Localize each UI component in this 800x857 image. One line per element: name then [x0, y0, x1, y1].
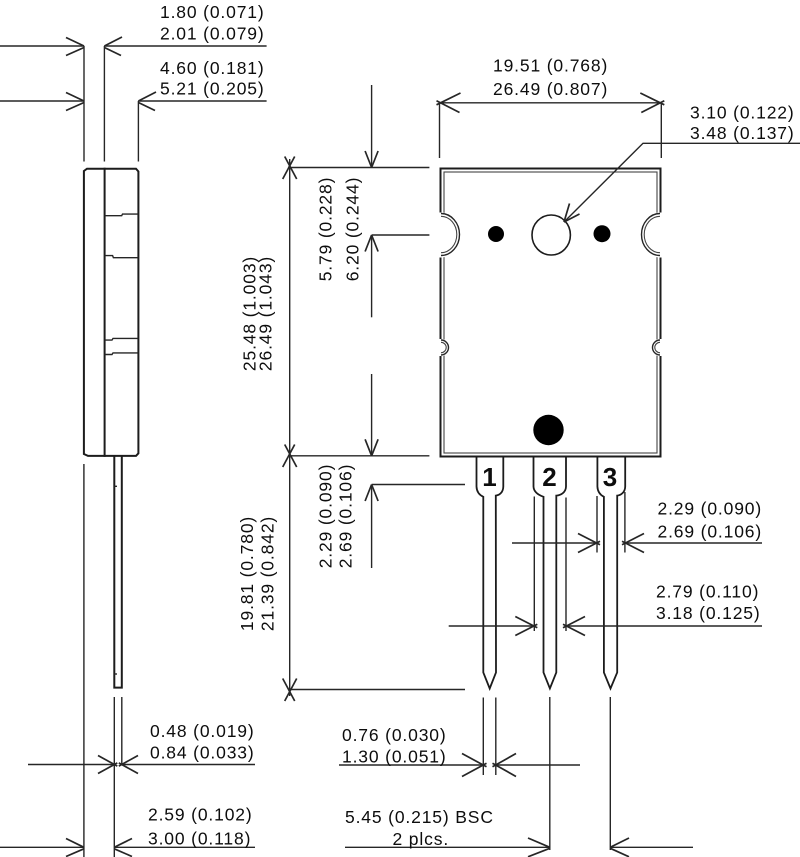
- svg-text:19.51 (0.768): 19.51 (0.768): [493, 56, 608, 76]
- svg-text:2.79 (0.110): 2.79 (0.110): [656, 582, 759, 602]
- svg-text:0.84 (0.033): 0.84 (0.033): [150, 743, 255, 763]
- svg-text:2: 2: [542, 462, 556, 492]
- svg-text:26.49 (0.807): 26.49 (0.807): [493, 79, 608, 99]
- svg-text:0.76 (0.030): 0.76 (0.030): [342, 725, 447, 745]
- side view internal line 4: [105, 353, 139, 355]
- dim 2.79/3.18 pin2 wide: [449, 497, 762, 636]
- svg-text:0.48 (0.019): 0.48 (0.019): [150, 721, 255, 741]
- side view body outline: [84, 169, 138, 688]
- svg-text:2 plcs.: 2 plcs.: [393, 829, 450, 849]
- extension lines bottom-left: [83, 464, 85, 857]
- svg-text:1.30 (0.051): 1.30 (0.051): [342, 747, 447, 767]
- svg-text:4.60 (0.181): 4.60 (0.181): [160, 58, 265, 78]
- pin tip ext line: [288, 689, 465, 691]
- pkg bottom ext line: [288, 455, 429, 457]
- svg-text:3.10 (0.122): 3.10 (0.122): [690, 103, 795, 123]
- pin 2 front: [534, 458, 567, 689]
- svg-text:1: 1: [482, 462, 496, 492]
- pin shoulder ref: [372, 484, 465, 486]
- svg-text:1.80 (0.071): 1.80 (0.071): [160, 2, 265, 22]
- pin 3 front: [597, 458, 625, 689]
- dim 19.51/26.49 pkg width: [437, 56, 665, 158]
- front view package: [438, 169, 663, 457]
- svg-text:2.59 (0.102): 2.59 (0.102): [148, 805, 253, 825]
- dim 5.45 BSC pin pitch: [345, 697, 693, 857]
- svg-text:5.21 (0.205): 5.21 (0.205): [160, 79, 265, 99]
- right small dot: [594, 225, 611, 242]
- svg-text:2.29 (0.090): 2.29 (0.090): [658, 499, 763, 519]
- side view internal line 2: [105, 256, 139, 258]
- right small notch: [651, 339, 663, 356]
- svg-text:2.69 (0.106): 2.69 (0.106): [658, 522, 763, 542]
- extension lines top-left: [83, 46, 85, 162]
- svg-text:26.49 (1.043): 26.49 (1.043): [256, 256, 276, 371]
- svg-text:5.79 (0.228): 5.79 (0.228): [316, 177, 336, 282]
- dim 0.48/0.84: [28, 721, 255, 774]
- svg-text:5.45 (0.215) BSC: 5.45 (0.215) BSC: [345, 807, 494, 827]
- side view tab/body internal vertical line: [104, 169, 106, 456]
- side view pin: [114, 456, 122, 688]
- hole dia leader 3.10/3.48: [564, 103, 800, 222]
- dim 1.80/2.01: [0, 2, 267, 56]
- left small notch: [438, 339, 450, 356]
- left small dot: [488, 226, 504, 242]
- bottom filled circle: [533, 415, 563, 445]
- dim 2.59/3.00: [0, 805, 255, 857]
- svg-text:3.00 (0.118): 3.00 (0.118): [148, 828, 251, 848]
- svg-text:21.39 (0.842): 21.39 (0.842): [258, 516, 278, 631]
- hole centerline ref: [372, 234, 430, 236]
- svg-text:3.18 (0.125): 3.18 (0.125): [656, 603, 761, 623]
- dim stack 25.48 / 19.81 vertical line: [283, 157, 297, 702]
- dim 0.76/1.30 pin narrow: [339, 698, 580, 777]
- left big notch: [438, 213, 461, 258]
- dim 4.60/5.21: [0, 58, 267, 110]
- pkg top ext line: [288, 167, 429, 169]
- svg-text:2.01 (0.079): 2.01 (0.079): [160, 23, 265, 43]
- side view internal line 1: [105, 214, 139, 216]
- svg-text:3: 3: [603, 462, 617, 492]
- dim 2.29/2.69 pin3 wide: [512, 492, 762, 553]
- side view internal line 3: [105, 338, 139, 340]
- side view pin tick lower: [114, 673, 117, 675]
- pin 1 front: [477, 458, 504, 689]
- svg-text:2.29 (0.090): 2.29 (0.090): [316, 464, 336, 569]
- svg-text:2.69 (0.106): 2.69 (0.106): [336, 464, 356, 569]
- side view pin tick upper: [114, 485, 117, 487]
- mounting hole: [532, 215, 570, 255]
- svg-text:6.20 (0.244): 6.20 (0.244): [343, 177, 363, 282]
- dim stack 5.79/6.20 and 2.29/2.69 middle: [365, 85, 465, 568]
- svg-text:3.48 (0.137): 3.48 (0.137): [690, 123, 795, 143]
- svg-text:19.81 (0.780): 19.81 (0.780): [237, 516, 257, 631]
- right big notch: [640, 213, 663, 258]
